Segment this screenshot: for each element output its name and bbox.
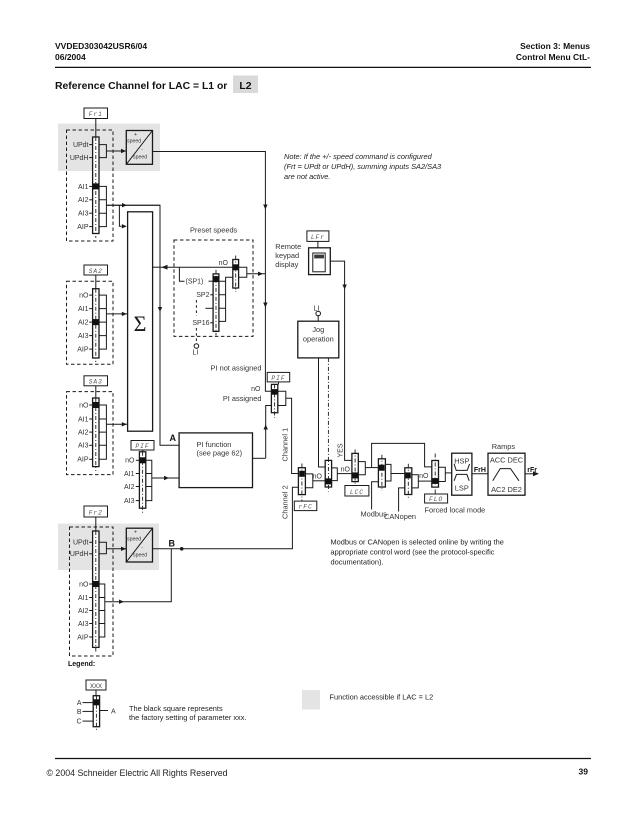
svg-text:The black square represents: The black square represents	[129, 704, 223, 713]
collector bracket LCC	[358, 462, 365, 475]
wire to +/- speed box (Fr2)	[106, 548, 126, 550]
legend output wire A	[100, 710, 108, 712]
collector bracket SA3	[99, 405, 106, 459]
gray accessibility zone Fr1	[58, 124, 160, 172]
svg-text:SP16: SP16	[192, 320, 209, 327]
wire preset output to channel line	[247, 273, 266, 275]
svg-text:PI not assigned: PI not assigned	[211, 364, 262, 373]
Jog operation box	[298, 321, 339, 358]
svg-text:AIP: AIP	[77, 224, 89, 231]
wire SA2 output into summer	[106, 313, 127, 315]
svg-text:Remote: Remote	[275, 242, 301, 251]
selector SW7 (PIF input) bar	[139, 452, 145, 513]
dashed function box Fr1	[67, 130, 114, 241]
factory setting square FLO=nO	[432, 478, 438, 484]
svg-text:AIP: AIP	[77, 457, 89, 464]
svg-text:B: B	[77, 709, 82, 716]
svg-text:B: B	[169, 539, 176, 549]
collector bracket SA2	[99, 295, 106, 349]
svg-text:Ramps: Ramps	[492, 442, 516, 451]
remote keypad display text	[275, 242, 301, 269]
wire reference feed into preset selector	[160, 266, 233, 268]
selector SW14 (FLO) bar	[432, 454, 439, 495]
parameter label LFr	[307, 231, 329, 242]
svg-text:39: 39	[579, 767, 589, 777]
svg-text:-: -	[141, 147, 143, 153]
svg-text:nO: nO	[251, 386, 261, 393]
svg-text:+: +	[134, 530, 137, 536]
keypad display icon	[309, 248, 331, 275]
svg-text:AI2: AI2	[124, 484, 135, 491]
wire Fr1 +/- speed output to channel line	[153, 152, 272, 392]
wire Modbus control input	[372, 482, 379, 510]
svg-text:the factory setting of paramet: the factory setting of parameter xxx.	[129, 713, 246, 722]
selector SW2 (SA2) bar	[93, 289, 99, 362]
wire channel 1	[286, 398, 299, 473]
svg-text:nO: nO	[79, 293, 89, 300]
svg-text:Σ: Σ	[134, 311, 147, 336]
factory setting square jog=nO	[325, 478, 331, 484]
wire SA3 output into summer	[106, 423, 127, 425]
parameter label Fr1	[84, 108, 108, 119]
wire PIF label to selector	[278, 382, 280, 385]
wire LCC output to Modbus selector	[365, 467, 378, 469]
dashed function box SA2	[67, 281, 114, 364]
svg-text:PIF: PIF	[271, 375, 285, 382]
svg-text:CANopen: CANopen	[384, 512, 416, 521]
svg-text:AI1: AI1	[78, 184, 89, 191]
factory setting square PIF input=nO	[140, 457, 146, 463]
dashed function box Preset speeds	[174, 240, 253, 336]
svg-text:display: display	[275, 260, 298, 269]
svg-text:speed: speed	[127, 139, 141, 145]
wire Fr2 selector output up to B	[105, 549, 172, 602]
svg-text:Note: If the +/- speed command: Note: If the +/- speed command is config…	[284, 152, 433, 161]
svg-text:nO: nO	[341, 467, 351, 474]
wire branch into summer	[119, 205, 121, 226]
svg-text:L2: L2	[239, 81, 251, 92]
dashed function box SA3	[67, 392, 114, 475]
wire summer output	[153, 266, 160, 268]
pin intermediate tick	[205, 307, 213, 309]
parameter label SA3	[84, 376, 108, 386]
svg-text:nO: nO	[219, 260, 229, 267]
factory setting square Fr2=nO	[93, 581, 99, 587]
svg-text:nO: nO	[79, 402, 89, 409]
parameter label SA2	[84, 265, 108, 275]
svg-text:UPdt: UPdt	[73, 142, 89, 149]
svg-text:AIP: AIP	[77, 347, 89, 354]
parameter label rFC	[294, 501, 317, 511]
dashed function box Fr2	[70, 527, 114, 656]
wire Fr2 label to selector	[95, 517, 97, 531]
svg-text:AI1: AI1	[78, 416, 89, 423]
svg-text:nO: nO	[125, 458, 135, 465]
svg-text:XXX: XXX	[90, 684, 102, 690]
+/- speed box U4	[126, 528, 152, 562]
wire CANopen control input	[399, 488, 405, 512]
+/- speed box U1	[126, 131, 152, 165]
svg-text:© 2004 Schneider Electric All: © 2004 Schneider Electric All Rights Res…	[47, 768, 228, 778]
svg-text:Jog: Jog	[312, 325, 324, 334]
svg-text:SA2: SA2	[89, 268, 103, 275]
collector bracket Modbus	[385, 464, 391, 481]
svg-text:appropriate control word (see: appropriate control word (see the protoc…	[331, 548, 495, 557]
svg-text:06/2004: 06/2004	[55, 52, 86, 62]
svg-text:LFr: LFr	[311, 234, 325, 241]
selector SW1 (Fr1) bar	[93, 137, 99, 238]
svg-text:+: +	[134, 132, 137, 138]
wire SP output up into preset output selector	[226, 277, 233, 281]
factory setting square SA2=AI2	[93, 319, 99, 325]
wire to +/- speed box	[106, 150, 126, 152]
svg-text:SA3: SA3	[89, 379, 103, 386]
parameter label FLO	[425, 494, 448, 503]
svg-text:A: A	[170, 433, 177, 443]
collector bracket CANopen	[412, 475, 419, 488]
svg-text:operation: operation	[303, 335, 334, 344]
wire B to channel 2	[153, 487, 299, 549]
svg-text:are not active.: are not active.	[284, 172, 330, 181]
svg-text:A: A	[77, 700, 82, 707]
PI function box U3	[179, 433, 252, 488]
parameter label LCC	[345, 486, 369, 497]
svg-text:AI2: AI2	[78, 608, 89, 615]
svg-text:Forced local mode: Forced local mode	[425, 505, 486, 514]
svg-text:AI3: AI3	[78, 443, 89, 450]
svg-text:AI3: AI3	[78, 333, 89, 340]
svg-text:Reference Channel for LAC = L1: Reference Channel for LAC = L1 or	[55, 81, 227, 92]
selector SW5 (preset output) bar	[233, 256, 239, 293]
collector bracket rFC	[305, 474, 312, 488]
wire keypad to chain (YES line)	[330, 261, 352, 460]
collector bracket UPdt/UPdH (Fr2)	[99, 542, 106, 554]
ramps box	[488, 453, 525, 495]
node B junction dot	[180, 547, 184, 551]
selector SW3 (SA3) bar	[93, 398, 99, 471]
svg-text:Modbus or CANopen is selected: Modbus or CANopen is selected online by …	[331, 538, 504, 547]
wire jog dash-dot control	[327, 358, 329, 458]
svg-text:FLO: FLO	[429, 496, 443, 503]
selector SW10 (jog) bar	[325, 458, 331, 492]
factory setting square SA3=nO	[93, 402, 99, 408]
parameter label PIF (function input)	[131, 441, 154, 451]
wire Fr1 selector output	[106, 204, 160, 206]
svg-text:AI3: AI3	[78, 211, 89, 218]
wire branch down to SP1 input	[179, 267, 184, 281]
svg-text:documentation).: documentation).	[331, 558, 384, 567]
svg-text:AI1: AI1	[124, 471, 135, 478]
svg-text:speed: speed	[127, 536, 141, 542]
svg-text:C: C	[76, 719, 81, 726]
wire FLO output to limiter	[445, 472, 451, 474]
selector SW8 (Fr2) bar	[93, 531, 99, 652]
svg-text:PIF: PIF	[135, 443, 149, 450]
svg-text:AI2: AI2	[78, 320, 89, 327]
collector bracket SP	[219, 281, 226, 321]
wire SA3 label to selector	[95, 386, 97, 398]
svg-text:AI2: AI2	[78, 430, 89, 437]
svg-text:HSP: HSP	[454, 456, 469, 465]
wire Fr1 label to selector	[95, 119, 97, 138]
factory setting square CANopen	[405, 472, 411, 478]
svg-text:AI3: AI3	[124, 498, 135, 505]
svg-text:speed: speed	[133, 155, 147, 161]
svg-text:AIP: AIP	[77, 634, 89, 641]
wire limiter to ramps	[472, 473, 488, 475]
wire PI assigned input	[266, 406, 272, 459]
svg-text:-: -	[141, 545, 143, 551]
svg-text:(Frt = UPdt or UPdH), summing: (Frt = UPdt or UPdH), summing inputs SA2…	[284, 162, 442, 171]
svg-text:rFC: rFC	[299, 504, 313, 511]
selector SW6 (PIF channel) bar	[271, 384, 277, 418]
collector bracket PIF input	[146, 460, 152, 500]
wire PI function output loop	[253, 457, 266, 459]
svg-text:nO: nO	[419, 473, 429, 480]
wire main reference vertical	[106, 205, 179, 445]
svg-text:AI2: AI2	[78, 197, 89, 204]
svg-text:speed: speed	[133, 552, 147, 558]
wire PIF label to selector	[142, 450, 144, 452]
wire jog solid output	[319, 358, 326, 467]
collector bracket jog	[332, 468, 338, 481]
wire CANopen output to FLO selector	[418, 480, 432, 482]
svg-text:nO: nO	[313, 473, 323, 480]
collector bracket AI1-AIP (Fr1)	[99, 186, 106, 226]
svg-text:Function accessible if LAC = L: Function accessible if LAC = L2	[330, 692, 434, 701]
svg-text:Legend:: Legend:	[68, 661, 95, 668]
summer box U2	[128, 212, 153, 431]
dashed ellipsis line to LI	[195, 300, 197, 316]
svg-text:AI1: AI1	[78, 595, 89, 602]
wire rFC output to jog selector	[313, 480, 325, 482]
svg-text:UPdH: UPdH	[70, 155, 89, 162]
wire PIF input to PI function	[152, 477, 179, 479]
svg-text:AC2 DE2: AC2 DE2	[491, 485, 522, 494]
svg-text:LSP: LSP	[455, 483, 469, 492]
svg-text:SP2: SP2	[196, 292, 209, 299]
svg-text:LCC: LCC	[350, 489, 364, 496]
svg-text:(see page 62): (see page 62)	[197, 449, 243, 458]
collector bracket FLO	[439, 467, 446, 481]
selector SW9 (rFC) bar	[298, 464, 305, 502]
collector bracket preset output	[239, 267, 247, 277]
svg-text:nO: nO	[79, 581, 89, 588]
limiter box HSP/LSP	[452, 453, 472, 495]
svg-text:AI3: AI3	[78, 621, 89, 628]
svg-text:Fr1: Fr1	[89, 111, 103, 118]
wire Modbus output to CANopen selector	[391, 473, 405, 475]
svg-text:keypad: keypad	[275, 251, 299, 260]
svg-text:UPdH: UPdH	[70, 551, 89, 558]
wire jog output to LCC selector	[337, 473, 352, 475]
selector SW4 (SP) bar	[213, 270, 219, 336]
factory setting square rFC=Channel1	[299, 471, 305, 477]
selector SW12 (Modbus) bar	[378, 455, 385, 491]
selector SW11 (LCC) bar	[352, 450, 358, 486]
svg-text:Section 3: Menus: Section 3: Menus	[520, 41, 590, 51]
svg-text:Control Menu CtL-: Control Menu CtL-	[516, 52, 590, 62]
svg-text:Channel 1: Channel 1	[281, 428, 290, 462]
parameter label Fr2	[84, 506, 108, 517]
svg-text:Fr2: Fr2	[89, 509, 103, 516]
factory setting square preset=nO	[233, 264, 239, 270]
legend factory setting square	[93, 699, 99, 705]
legend selector bar	[93, 696, 99, 730]
svg-text:AI1: AI1	[78, 306, 89, 313]
header rule	[55, 66, 591, 68]
wire LFr label to keypad icon	[317, 241, 319, 247]
factory setting square Fr1=AI1	[93, 183, 99, 189]
wire SA2 label to selector	[95, 275, 97, 289]
svg-text:FrH: FrH	[474, 467, 486, 474]
wire bypass over Modbus/CANopen	[372, 443, 432, 467]
svg-text:UPdt: UPdt	[73, 540, 89, 547]
collector bracket AI (Fr2)	[99, 584, 105, 637]
collector bracket PIF channel	[278, 391, 286, 405]
svg-text:rFr: rFr	[527, 467, 537, 474]
L2 highlight box	[233, 76, 258, 94]
parameter label PIF (channel)	[267, 372, 290, 382]
svg-text:Channel 2: Channel 2	[281, 485, 290, 519]
svg-text:YES: YES	[338, 443, 345, 457]
svg-text:Preset speeds: Preset speeds	[190, 225, 238, 234]
svg-text:(SP1): (SP1)	[186, 279, 204, 286]
svg-text:ACC DEC: ACC DEC	[490, 455, 524, 464]
node LI (preset)	[194, 344, 199, 349]
collector bracket UPdt/UPdH	[99, 145, 106, 158]
wire rFr output	[525, 473, 536, 475]
selector SW13 (CANopen) bar	[405, 464, 412, 499]
factory setting square Modbus	[379, 465, 385, 471]
factory setting square SP1	[213, 276, 219, 282]
svg-text:PI assigned: PI assigned	[223, 394, 262, 403]
gray accessibility zone Fr2	[58, 524, 159, 571]
factory setting square PIF=nO	[272, 389, 278, 395]
svg-text:VVDED303042USR6/04: VVDED303042USR6/04	[55, 41, 147, 51]
wire XXX label to legend selector	[95, 690, 97, 696]
svg-text:LI: LI	[193, 350, 199, 357]
factory setting square LCC=nO	[352, 472, 358, 478]
legend parameter box XXX	[86, 680, 106, 690]
legend gray swatch	[302, 690, 320, 710]
svg-text:A: A	[111, 708, 116, 715]
